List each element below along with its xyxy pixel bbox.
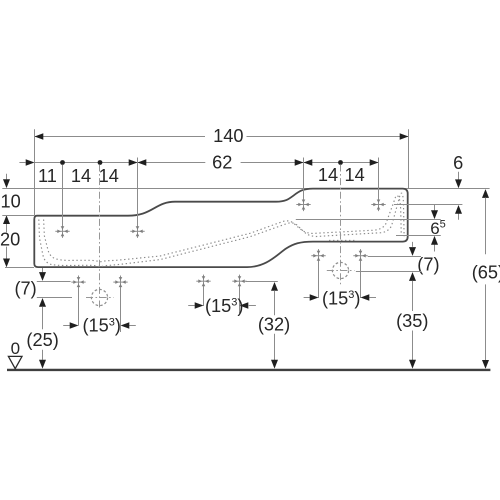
centerline left bowl bbox=[99, 165, 101, 309]
chain node dot x=341 bbox=[338, 160, 343, 165]
ref line y=256 bbox=[368, 256, 421, 258]
chain node dot x=63 bbox=[60, 160, 65, 165]
svg-text:140: 140 bbox=[213, 126, 243, 146]
dim 140 right arrow bbox=[400, 133, 409, 140]
svg-text:(7): (7) bbox=[14, 279, 36, 299]
fastening cross upper-left b bbox=[130, 225, 144, 238]
ref line y=271.3 bbox=[356, 271, 421, 273]
hidden bowl contour inner (dotted) bbox=[44, 196, 402, 262]
svg-text:(32): (32) bbox=[258, 315, 290, 335]
dim (7) left bbox=[42, 268, 44, 272]
centerline right bowl bbox=[340, 165, 342, 285]
svg-text:11: 11 bbox=[38, 166, 57, 186]
ext line x=62.7 bbox=[62, 165, 64, 226]
svg-text:0: 0 bbox=[11, 339, 20, 358]
fastening cross center b bbox=[232, 275, 246, 288]
dim 140 line bbox=[35, 136, 206, 138]
svg-text:20: 20 bbox=[0, 230, 20, 250]
dim (7) right bbox=[412, 242, 414, 247]
hidden outlet edge (dotted) bbox=[329, 239, 356, 241]
ext line x=378.5 bbox=[378, 158, 380, 200]
svg-text:(25): (25) bbox=[26, 330, 58, 350]
ref line y=267.4 left bbox=[5, 267, 34, 269]
dim (15_3) right bbox=[318, 261, 320, 299]
svg-text:62: 62 bbox=[212, 153, 232, 173]
svg-text:65: 65 bbox=[430, 218, 446, 238]
chain dim line 11/14/14 + 62 + 14/14 bbox=[19, 162, 25, 164]
ref line from center cross to (32) bbox=[246, 281, 278, 283]
ref line y=204.6 bbox=[394, 204, 462, 206]
ext line x=303.7 bbox=[303, 158, 305, 200]
fastening cross lower-right a bbox=[311, 249, 325, 262]
fastening cross lower-left a bbox=[71, 276, 85, 289]
svg-text:6: 6 bbox=[453, 153, 463, 173]
fastening cross upper-right b bbox=[371, 198, 385, 211]
ext line x=137.6 bbox=[137, 158, 139, 227]
svg-text:10: 10 bbox=[1, 192, 21, 212]
fastening cross upper-left a bbox=[55, 225, 69, 238]
dim 6 arrows bbox=[458, 172, 460, 180]
dim 140 left arrow bbox=[35, 133, 44, 140]
fastening cross center a bbox=[196, 275, 210, 288]
extension line left edge bbox=[34, 129, 36, 215]
svg-text:14: 14 bbox=[318, 165, 338, 185]
reference line: top rim level bbox=[2, 188, 489, 190]
svg-text:14: 14 bbox=[99, 166, 119, 186]
dim 10 arrows bbox=[6, 174, 8, 180]
svg-text:(153): (153) bbox=[83, 316, 121, 336]
dim (35) bbox=[412, 281, 414, 311]
ref line y=235.6 bbox=[396, 235, 441, 237]
dim 20 lower arrow bbox=[6, 247, 8, 259]
svg-text:14: 14 bbox=[71, 166, 91, 186]
svg-text:(65): (65) bbox=[472, 263, 500, 283]
fastening cross upper-right a bbox=[296, 198, 310, 211]
dim (65) bbox=[482, 189, 489, 198]
ref line y=214.9 bbox=[2, 215, 34, 217]
chain end arrow x=378.5 bbox=[370, 159, 379, 166]
arrows pair x=303.7 bbox=[295, 159, 304, 166]
chain outside arrow at x=34 bbox=[26, 159, 35, 166]
svg-text:14: 14 bbox=[344, 165, 364, 185]
svg-text:(153): (153) bbox=[322, 288, 360, 308]
datum triangle bbox=[8, 356, 22, 368]
dim (15_3) center bbox=[203, 286, 205, 306]
svg-text:(35): (35) bbox=[396, 311, 428, 331]
dim 6.5 arrows bbox=[434, 205, 436, 211]
fastening cross lower-left b bbox=[113, 276, 127, 289]
arrows pair x=137.6 bbox=[129, 159, 138, 166]
dim (25) bbox=[42, 307, 44, 329]
drain circle right bbox=[332, 262, 348, 278]
dim (32) bbox=[271, 282, 278, 291]
washbasin outline (section) bbox=[34, 189, 407, 268]
hidden bowl contour outer (dotted) bbox=[39, 193, 404, 267]
fastening cross lower-right b bbox=[353, 249, 367, 262]
dim (15_3) left bbox=[78, 287, 80, 326]
chain node dot x=100 bbox=[98, 160, 103, 165]
svg-text:(153): (153) bbox=[205, 296, 243, 316]
ref line y=219.3 shelf surface bbox=[296, 219, 441, 221]
extension line right edge bbox=[408, 129, 410, 188]
drain circle left bbox=[91, 289, 107, 305]
floor line bbox=[7, 369, 490, 371]
